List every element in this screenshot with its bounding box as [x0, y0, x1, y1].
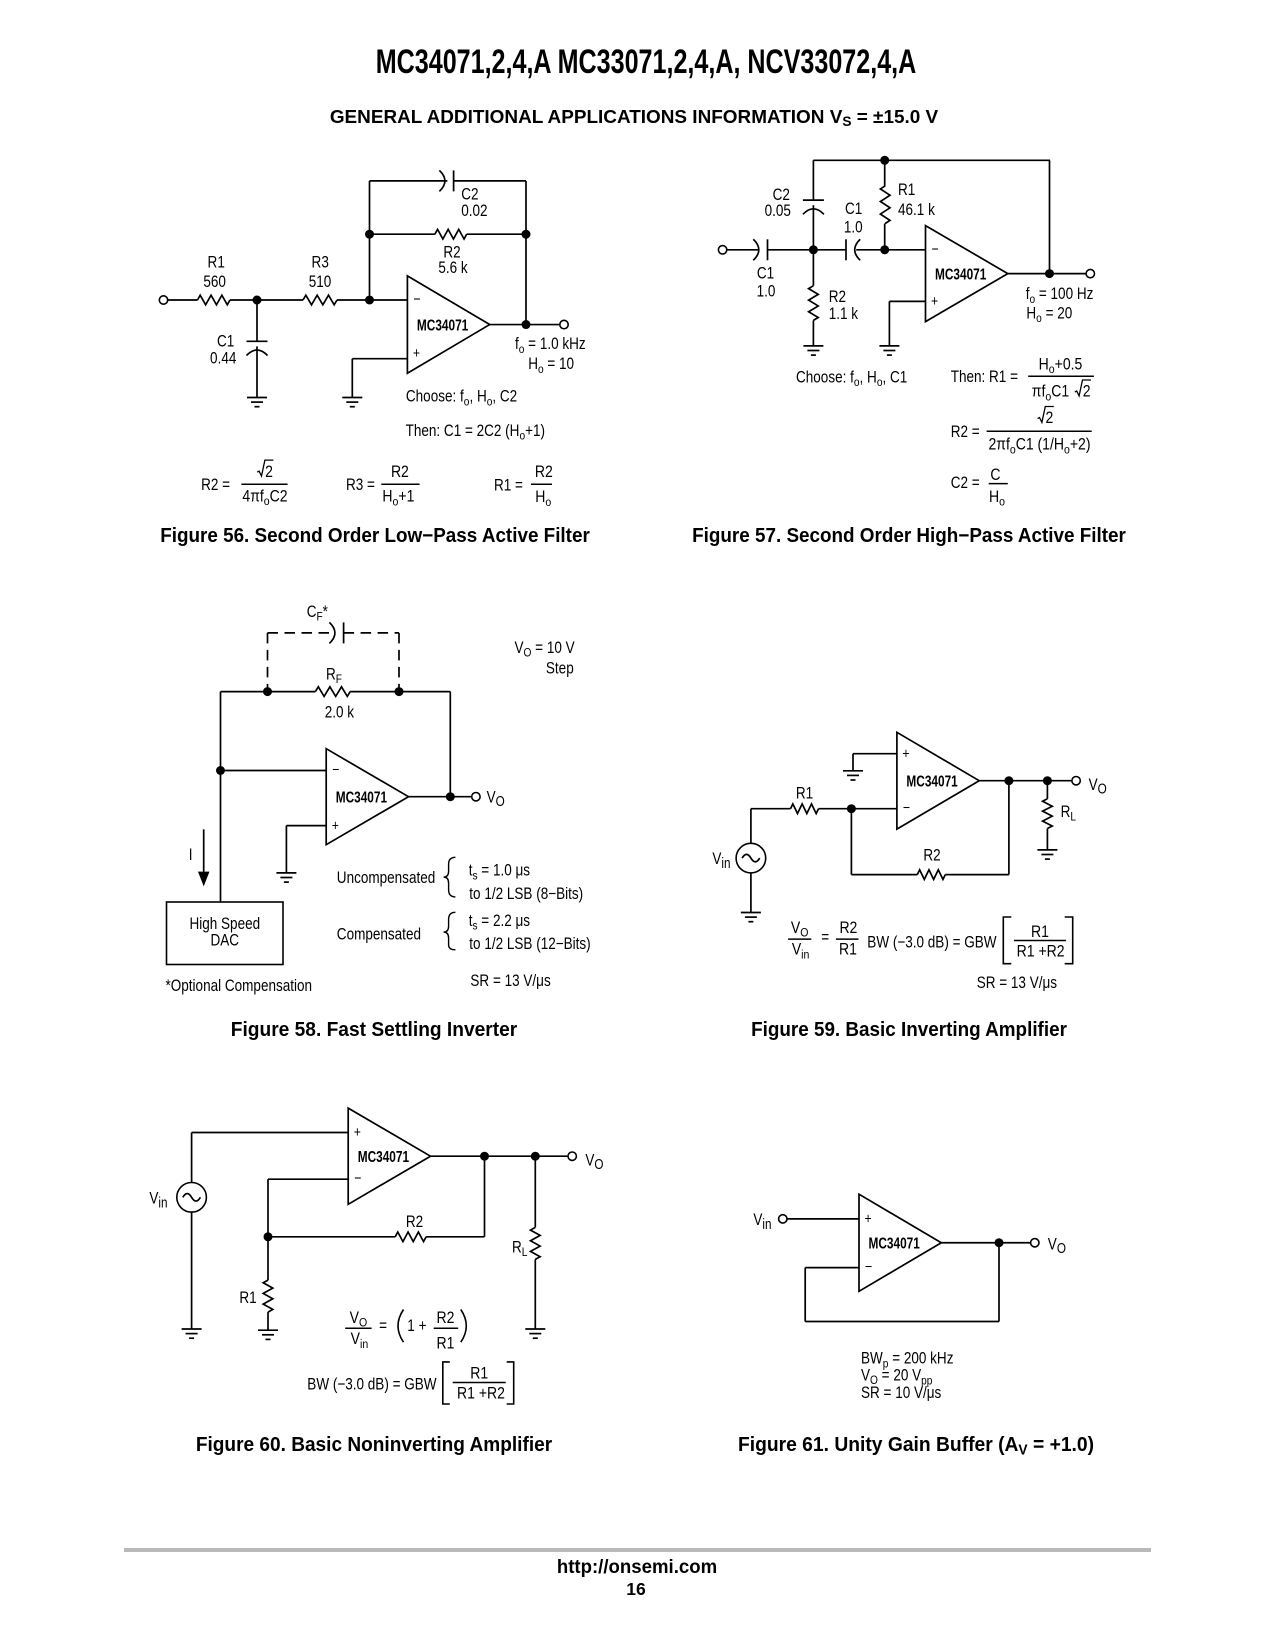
svg-text:VO​: VO​: [1089, 776, 1107, 797]
svg-text:R1 =: R1 =: [494, 476, 523, 495]
node D: [446, 792, 455, 801]
wire: [221, 770, 327, 772]
input terminal: [779, 1215, 787, 1223]
wire: [490, 324, 564, 326]
wire: [337, 299, 407, 301]
resistor R2: [435, 229, 468, 277]
svg-text:2πfo​C1 (1/Ho​+2): 2πfo​C1 (1/Ho​+2): [988, 436, 1090, 457]
svg-text:VO​: VO​: [350, 1309, 368, 1330]
svg-text:=: =: [821, 928, 829, 947]
label VO = 10 V Step: [515, 639, 575, 678]
wire: [192, 1132, 349, 1134]
wire: [888, 301, 890, 346]
node C: [365, 230, 374, 239]
wire: [750, 873, 752, 913]
output terminal: [1086, 269, 1094, 277]
svg-text:1.1 k: 1.1 k: [829, 305, 859, 324]
node C: [531, 1152, 540, 1161]
brace: [444, 912, 456, 950]
svg-text:ts​ = 2.2 μs: ts​ = 2.2 μs: [469, 912, 530, 933]
wire: [484, 1156, 486, 1237]
formula VO/Vin: [788, 919, 858, 962]
svg-text:Ho​+1: Ho​+1: [382, 488, 414, 509]
svg-text:MC34071: MC34071: [417, 317, 469, 334]
output terminal: [472, 793, 480, 801]
resistor RF: [315, 665, 354, 721]
svg-text:0.05: 0.05: [765, 202, 791, 221]
wire: [369, 181, 371, 234]
svg-text:46.1 k: 46.1 k: [898, 201, 935, 220]
svg-text:Ho​: Ho​: [989, 488, 1005, 509]
op-amp U1 MC34071: [859, 1194, 941, 1291]
svg-text:1.0: 1.0: [757, 282, 776, 301]
svg-text:−: −: [903, 800, 910, 816]
svg-text:C2 =: C2 =: [951, 474, 980, 493]
formula VO/Vin: [345, 1309, 466, 1353]
svg-text:Vin​: Vin​: [712, 850, 730, 871]
svg-text:πfo​C1: πfo​C1: [1032, 383, 1069, 404]
svg-text:=: =: [379, 1317, 387, 1336]
wire: [257, 299, 303, 301]
svg-text:VO​: VO​: [585, 1151, 603, 1172]
svg-text:MC34071: MC34071: [935, 266, 987, 283]
wire: [941, 1242, 1035, 1244]
node A: [809, 245, 818, 254]
node C: [216, 766, 225, 775]
wire dashed: [268, 632, 332, 634]
svg-text:R1 +R2: R1 +R2: [457, 1384, 505, 1402]
svg-text:510: 510: [309, 273, 332, 292]
svg-text:R2: R2: [923, 846, 940, 865]
svg-text:R2 =: R2 =: [951, 423, 980, 442]
wire dashed: [344, 632, 399, 634]
resistor RL: [512, 1156, 540, 1329]
ground: [247, 398, 267, 407]
svg-text:+: +: [354, 1124, 361, 1140]
svg-text:2: 2: [1046, 409, 1054, 427]
formula BW: [867, 917, 1072, 964]
svg-text:*Optional Compensation: *Optional Compensation: [166, 977, 313, 996]
svg-text:MC34071: MC34071: [336, 789, 388, 806]
svg-text:MC34071: MC34071: [906, 773, 958, 790]
resistor R1: [198, 253, 231, 305]
svg-text:R1: R1: [470, 1364, 488, 1382]
wire: [1008, 781, 1010, 875]
svg-text:ts​ = 1.0 μs: ts​ = 1.0 μs: [469, 861, 530, 882]
wire: [268, 1178, 348, 1180]
op-amp U1 MC34071: [326, 749, 408, 845]
ground: [182, 1329, 202, 1338]
svg-text:R2: R2: [839, 919, 857, 937]
resistor R2: [809, 250, 859, 346]
output terminal: [560, 320, 568, 328]
wire: [1008, 273, 1091, 275]
caption figure 57: [602, 526, 1216, 546]
footer url: [333, 1558, 941, 1578]
wire: [805, 1321, 999, 1323]
wire: [819, 808, 897, 810]
input terminal: [159, 296, 167, 304]
svg-text:MC34071: MC34071: [869, 1235, 921, 1252]
formula R3: [346, 463, 420, 509]
wire: [267, 1179, 269, 1237]
svg-text:4πfo​C2: 4πfo​C2: [242, 487, 287, 508]
svg-text:MC34071: MC34071: [358, 1149, 410, 1166]
svg-text:Ho​+0.5: Ho​+0.5: [1039, 355, 1083, 376]
formula R1: [494, 463, 553, 509]
svg-text:+: +: [332, 817, 339, 833]
svg-text:R2: R2: [829, 288, 846, 307]
wire dashed: [398, 633, 400, 692]
ground: [1037, 850, 1057, 859]
svg-text:R2 =: R2 =: [201, 476, 230, 495]
caption figure 61: [602, 1435, 1229, 1455]
svg-text:RL​: RL​: [512, 1238, 527, 1259]
node A: [847, 804, 856, 813]
svg-text:Vin​: Vin​: [351, 1330, 369, 1351]
wire: [431, 1155, 573, 1157]
svg-text:Vin​: Vin​: [149, 1189, 167, 1210]
svg-text:R1: R1: [239, 1289, 256, 1308]
wire: [268, 1236, 395, 1238]
svg-text:BW (−3.0 dB) = GBW: BW (−3.0 dB) = GBW: [867, 933, 997, 952]
wire: [426, 1236, 484, 1238]
wire: [852, 754, 854, 771]
svg-text:R2: R2: [391, 463, 409, 481]
svg-text:R1: R1: [208, 253, 225, 272]
svg-text:+: +: [902, 745, 909, 761]
wire: [812, 205, 814, 250]
wire: [768, 249, 814, 251]
node A: [995, 1238, 1004, 1247]
node C: [880, 156, 889, 165]
svg-text:−: −: [865, 1258, 872, 1274]
wire: [370, 233, 435, 235]
wire: [449, 692, 451, 797]
svg-text:560: 560: [203, 273, 226, 292]
svg-text:2: 2: [265, 463, 273, 481]
wire: [813, 159, 1050, 161]
caption figure 58: [62, 1020, 686, 1040]
svg-text:C: C: [990, 466, 1000, 484]
node B: [880, 245, 889, 254]
page subtitle: [228, 108, 1038, 127]
resistor R1: [791, 784, 819, 813]
svg-text:fo​ = 100 Hz: fo​ = 100 Hz: [1026, 285, 1094, 306]
caption figure 60: [64, 1435, 684, 1455]
resistor R1: [880, 160, 935, 250]
svg-text:−: −: [413, 291, 420, 307]
ground: [525, 1329, 545, 1338]
svg-text:VO​: VO​: [1048, 1235, 1066, 1256]
wire: [813, 249, 846, 251]
node E: [522, 320, 531, 329]
svg-text:R3 =: R3 =: [346, 476, 375, 495]
svg-text:Step: Step: [546, 659, 574, 678]
svg-text:−: −: [332, 761, 339, 777]
node A: [264, 1232, 273, 1241]
svg-text:2: 2: [1083, 383, 1091, 401]
svg-text:fo​ = 1.0 kHz: fo​ = 1.0 kHz: [515, 335, 586, 356]
svg-text:C1: C1: [757, 264, 774, 283]
svg-text:VO​: VO​: [487, 788, 505, 809]
wire: [230, 299, 257, 301]
svg-text:SR = 13 V/μs: SR = 13 V/μs: [977, 974, 1057, 993]
resistor RL: [1043, 781, 1076, 850]
wire: [787, 1218, 859, 1220]
svg-text:Choose: fo​, Ho​, C1: Choose: fo​, Ho​, C1: [796, 368, 907, 389]
wire: [727, 249, 760, 251]
output terminal: [1031, 1239, 1039, 1247]
resistor R2: [395, 1213, 426, 1242]
capacitor C1: [210, 300, 267, 368]
wire: [979, 780, 1076, 782]
svg-text:+: +: [865, 1210, 872, 1226]
resistor R3: [303, 253, 337, 305]
wire: [945, 874, 1009, 876]
svg-text:Then: R1 =: Then: R1 =: [951, 368, 1018, 387]
svg-text:R1: R1: [437, 1334, 455, 1352]
svg-text:C1: C1: [845, 200, 862, 219]
wire: [805, 1267, 859, 1269]
wire: [285, 826, 287, 873]
wire: [889, 300, 925, 302]
high speed DAC box: [167, 902, 284, 965]
brace: [444, 857, 456, 897]
svg-text:+: +: [413, 345, 420, 361]
svg-text:R1: R1: [1031, 923, 1049, 941]
signal source Vin: [149, 1183, 206, 1213]
resistor R1: [239, 1237, 272, 1330]
node D: [1045, 269, 1054, 278]
ground: [741, 913, 761, 922]
ground: [258, 1330, 278, 1339]
caption figure 56: [68, 526, 682, 546]
wire: [525, 181, 527, 234]
svg-text:to 1/2 LSB (8−Bits): to 1/2 LSB (8−Bits): [469, 885, 583, 904]
svg-text:CF​*: CF​*: [307, 603, 328, 624]
wire dashed: [267, 633, 269, 692]
ground: [803, 346, 823, 355]
svg-text:−: −: [354, 1170, 361, 1186]
wire: [850, 809, 852, 875]
wire: [467, 233, 526, 235]
wire: [1049, 160, 1051, 273]
ground: [276, 873, 296, 882]
capacitor CF: [329, 622, 343, 643]
wire: [751, 808, 791, 810]
wire: [750, 809, 752, 844]
wire: [191, 1133, 193, 1183]
caption figure 59: [602, 1020, 1216, 1040]
svg-text:R2: R2: [406, 1213, 423, 1232]
svg-text:VO​: VO​: [791, 919, 809, 940]
page title: [353, 45, 939, 79]
wire: [998, 1243, 1000, 1322]
wire: [369, 234, 371, 300]
wire: [191, 1212, 193, 1329]
capacitor C2: [765, 160, 824, 220]
footer rule: [124, 1548, 1152, 1552]
svg-text:5.6 k: 5.6 k: [438, 259, 468, 278]
wire: [804, 1268, 806, 1322]
svg-text:1.0: 1.0: [844, 218, 863, 237]
svg-text:Then: C1 = 2C2 (Ho​+1): Then: C1 = 2C2 (Ho​+1): [406, 422, 545, 443]
formula BW: [307, 1362, 513, 1404]
svg-text:R1: R1: [796, 784, 813, 803]
svg-text:R1 +R2: R1 +R2: [1017, 942, 1065, 960]
svg-text:0.02: 0.02: [461, 202, 487, 221]
svg-text:DAC: DAC: [211, 931, 240, 950]
page number: [316, 1581, 956, 1599]
capacitor C1 input: [753, 239, 775, 301]
capacitor C1 second: [844, 200, 863, 261]
svg-text:C1: C1: [217, 332, 234, 351]
svg-text:R2: R2: [437, 1309, 455, 1327]
wire: [286, 825, 326, 827]
wire: [525, 234, 527, 324]
wire: [851, 874, 917, 876]
svg-text:Vin​: Vin​: [792, 940, 810, 961]
node B: [480, 1152, 489, 1161]
node A: [263, 687, 272, 696]
input terminal: [718, 246, 726, 254]
wire: [256, 346, 258, 397]
ground: [843, 771, 863, 780]
svg-text:+: +: [931, 293, 938, 309]
formula R2: [951, 407, 1092, 457]
capacitor C2: [439, 170, 487, 220]
svg-text:R2: R2: [535, 463, 553, 481]
node D: [522, 230, 531, 239]
formula C2: [951, 466, 1008, 509]
wire: [168, 299, 198, 301]
wire: [454, 180, 526, 182]
output terminal: [568, 1152, 576, 1160]
node B: [1004, 776, 1013, 785]
op-amp U1 MC34071: [407, 276, 489, 373]
node C: [1043, 776, 1052, 785]
svg-text:R1: R1: [839, 940, 857, 958]
svg-text:to 1/2 LSB (12−Bits): to 1/2 LSB (12−Bits): [469, 935, 590, 954]
svg-text:RL​: RL​: [1061, 803, 1076, 824]
svg-text:1 +: 1 +: [407, 1317, 426, 1336]
formula R2: [201, 460, 288, 508]
wire: [350, 691, 450, 693]
wire: [370, 180, 448, 182]
svg-text:0.44: 0.44: [210, 349, 236, 368]
resistor R2: [917, 846, 945, 879]
op-amp U1 MC34071: [926, 226, 1008, 322]
ground: [342, 398, 362, 407]
svg-text:2.0 k: 2.0 k: [325, 703, 355, 722]
wire: [409, 796, 476, 798]
formula R1: [951, 355, 1094, 403]
svg-text:Compensated: Compensated: [337, 925, 421, 944]
output terminal: [1072, 777, 1080, 785]
wire: [221, 691, 316, 693]
svg-text:Ho​ = 10: Ho​ = 10: [528, 355, 574, 376]
ground: [879, 346, 899, 355]
svg-text:I: I: [189, 846, 193, 865]
svg-text:VO​ = 10 V: VO​ = 10 V: [515, 639, 575, 660]
svg-text:SR = 10 V/μs: SR = 10 V/μs: [861, 1384, 941, 1403]
svg-text:R1: R1: [898, 181, 915, 200]
wire: [853, 753, 897, 755]
svg-text:Ho​ = 20: Ho​ = 20: [1026, 304, 1072, 325]
svg-text:−: −: [932, 241, 939, 257]
svg-text:Ho​: Ho​: [535, 488, 551, 509]
node B: [365, 296, 374, 305]
signal source Vin: [712, 843, 765, 873]
op-amp U1 MC34071: [897, 732, 979, 829]
op-amp U1 MC34071: [348, 1108, 430, 1204]
wire: [220, 692, 222, 902]
svg-text:SR = 13 V/μs: SR = 13 V/μs: [470, 972, 550, 991]
svg-text:Choose: fo​, Ho​, C2: Choose: fo​, Ho​, C2: [406, 387, 517, 408]
node B: [395, 687, 404, 696]
svg-text:R3: R3: [312, 253, 329, 272]
wire: [856, 249, 925, 251]
wire: [352, 358, 407, 360]
svg-text:BW (−3.0 dB) = GBW: BW (−3.0 dB) = GBW: [307, 1375, 437, 1394]
node A: [253, 296, 262, 305]
svg-text:RF​: RF​: [326, 665, 342, 686]
svg-text:Uncompensated: Uncompensated: [337, 869, 435, 888]
svg-text:Vin​: Vin​: [753, 1211, 771, 1232]
wire: [351, 359, 353, 398]
current arrow I: [189, 829, 208, 884]
